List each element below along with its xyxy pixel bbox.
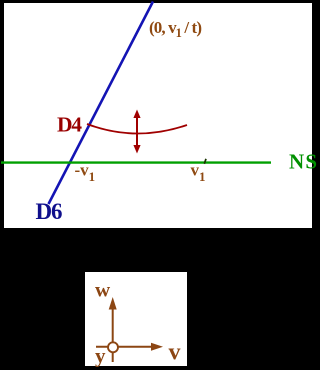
- origin circle: [108, 342, 118, 352]
- svg-text:v: v: [169, 340, 181, 366]
- svg-text:v1: v1: [191, 161, 206, 185]
- svg-text:D4: D4: [57, 113, 82, 137]
- svg-text:w: w: [95, 278, 111, 302]
- svg-text:y: y: [95, 344, 106, 368]
- svg-text:D6: D6: [36, 199, 63, 224]
- svg-text:(0, v1 / t): (0, v1 / t): [149, 18, 202, 40]
- line D4/D6 (blue worldline): [49, 2, 154, 205]
- svg-text:-v1: -v1: [75, 161, 96, 185]
- svg-text:NS: NS: [289, 150, 317, 174]
- line NS (green horizontal axis): [1, 161, 271, 163]
- white background panel (upper): [4, 3, 312, 228]
- white background patch (axes figure): [85, 272, 187, 366]
- red curve (chord between D4 line and arrow): [87, 124, 187, 134]
- axes: v (horizontal) arrow: [96, 346, 152, 348]
- tick at v1: [204, 159, 206, 164]
- axes: w (vertical) arrow: [112, 305, 114, 362]
- red double-headed arrow: [136, 115, 138, 148]
